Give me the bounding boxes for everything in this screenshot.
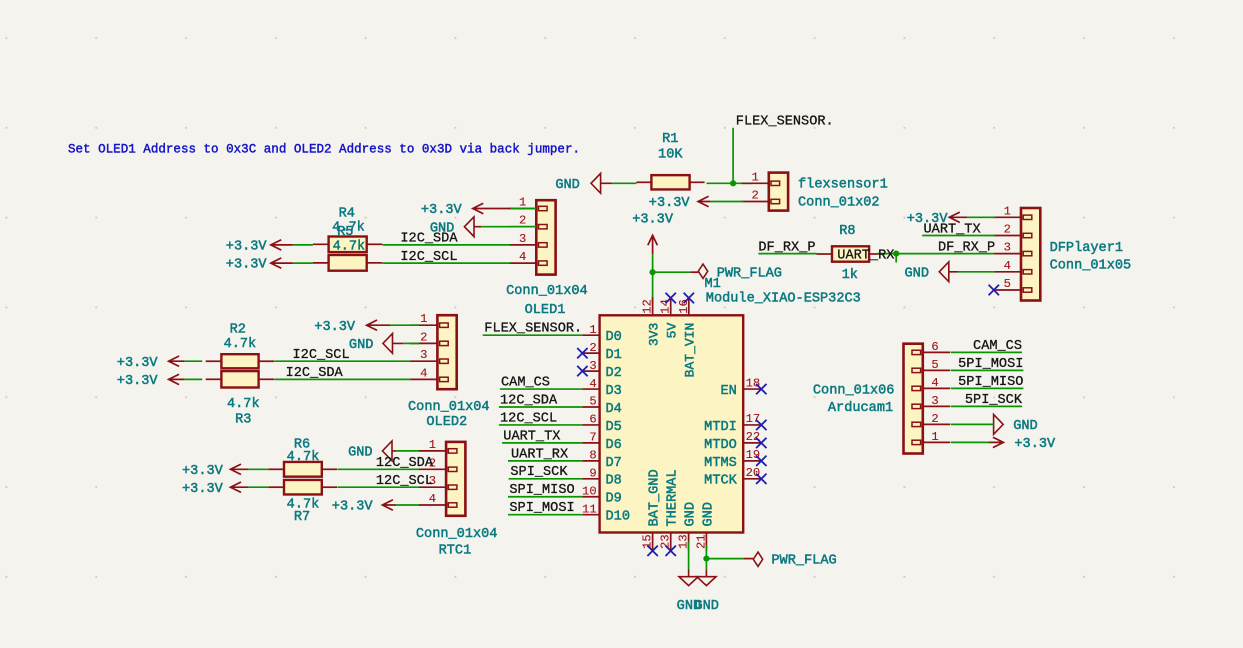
svg-text:R8: R8: [839, 224, 855, 239]
svg-text:Set OLED1 Address to 0x3C and: Set OLED1 Address to 0x3C and OLED2 Addr…: [68, 142, 580, 156]
wire: [275, 360, 411, 362]
svg-text:3: 3: [1004, 241, 1011, 255]
wire: [508, 496, 582, 498]
svg-text:+3.3V: +3.3V: [182, 482, 224, 497]
wire: [877, 253, 994, 255]
svg-text:+3.3V: +3.3V: [314, 320, 356, 335]
svg-text:1: 1: [519, 196, 526, 210]
svg-text:+3.3V: +3.3V: [421, 203, 463, 218]
svg-text:Conn_01x04: Conn_01x04: [506, 284, 588, 299]
wire: [711, 201, 744, 203]
power GND: [993, 415, 1003, 435]
svg-text:2: 2: [1004, 223, 1011, 237]
svg-text:17: 17: [746, 412, 761, 426]
svg-text:PWR_FLAG: PWR_FLAG: [771, 553, 836, 568]
svg-text:10K: 10K: [658, 148, 683, 163]
svg-text:D7: D7: [606, 456, 622, 471]
svg-text:Module_XIAO-ESP32C3: Module_XIAO-ESP32C3: [706, 292, 861, 307]
power +3.3V: [988, 437, 1003, 447]
svg-text:9: 9: [589, 467, 596, 481]
wire: [951, 405, 1022, 407]
no-connect pin 17: [756, 420, 766, 430]
wire: [338, 486, 419, 488]
junction: [650, 269, 656, 275]
junction: [893, 251, 899, 257]
power flag PWR_FLAG: [753, 552, 762, 566]
no-connect pin 14: [666, 293, 676, 303]
wire: [390, 324, 419, 326]
no-connect pin 3: [577, 366, 587, 376]
svg-text:Conn_01x05: Conn_01x05: [1050, 258, 1132, 273]
wire: [511, 208, 537, 210]
wire: [705, 545, 707, 570]
no-connect pin 18: [756, 384, 766, 394]
svg-text:GND: GND: [905, 267, 929, 282]
no-connect pin 19: [756, 456, 766, 466]
svg-text:EN: EN: [720, 384, 736, 399]
svg-text:GND: GND: [684, 502, 699, 526]
pin 4: [582, 388, 599, 390]
resistor R3: [206, 378, 222, 380]
wire: [922, 235, 995, 237]
svg-text:4.7k: 4.7k: [227, 397, 260, 412]
wire: [509, 478, 583, 480]
svg-text:18: 18: [746, 376, 761, 390]
wire: [951, 387, 1024, 389]
connector RTC1: [419, 450, 446, 452]
svg-text:R7: R7: [294, 510, 310, 525]
wire: [184, 360, 202, 362]
svg-text:1: 1: [420, 312, 427, 326]
svg-text:5: 5: [589, 395, 596, 409]
svg-text:+3.3V: +3.3V: [632, 213, 674, 228]
pin 20 MTCK: [743, 478, 761, 480]
pin 11: [582, 514, 599, 516]
svg-text:5V: 5V: [665, 323, 680, 339]
svg-text:Conn_01x04: Conn_01x04: [416, 527, 498, 542]
wire: [758, 253, 816, 255]
wire: [951, 369, 1024, 371]
svg-text:R2: R2: [230, 323, 246, 338]
wire: [951, 423, 994, 425]
wire: [383, 262, 511, 264]
svg-text:D0: D0: [606, 330, 622, 345]
svg-text:12: 12: [641, 299, 655, 314]
wire: [706, 558, 743, 560]
wire: [502, 442, 582, 444]
svg-text:THERMAL: THERMAL: [666, 469, 681, 526]
connector J flexsensor1: [742, 182, 769, 184]
svg-text:10: 10: [582, 484, 597, 498]
svg-text:4: 4: [931, 376, 938, 390]
svg-text:3V3: 3V3: [647, 323, 662, 346]
svg-text:Conn_01x06: Conn_01x06: [813, 383, 895, 398]
module body: [600, 315, 744, 532]
svg-text:D6: D6: [606, 438, 622, 453]
svg-text:20: 20: [746, 466, 761, 480]
svg-text:6: 6: [589, 413, 596, 427]
svg-text:M1: M1: [705, 277, 721, 292]
svg-text:2: 2: [420, 330, 427, 344]
pin 18 EN: [743, 388, 761, 390]
svg-text:3: 3: [519, 232, 526, 246]
pin 3: [582, 370, 599, 372]
wire: [481, 226, 536, 228]
svg-text:D2: D2: [606, 366, 622, 381]
wire: [383, 244, 511, 246]
pin 8: [582, 460, 599, 462]
wire: [396, 504, 419, 506]
svg-text:GND: GND: [348, 446, 372, 461]
svg-text:4: 4: [589, 377, 596, 391]
svg-text:4: 4: [1004, 259, 1011, 273]
svg-text:3: 3: [931, 394, 938, 408]
wire: [403, 342, 419, 344]
pin 6: [582, 424, 599, 426]
ground: [688, 570, 690, 577]
pin 16: [688, 297, 690, 315]
pin 23: [670, 533, 672, 551]
no-connect pin 2: [577, 348, 587, 358]
wire: [248, 486, 268, 488]
wire: [293, 244, 313, 246]
wire: [508, 514, 582, 516]
svg-text:2: 2: [519, 214, 526, 228]
svg-text:UART_RX: UART_RX: [837, 249, 894, 264]
pin 2: [582, 352, 599, 354]
svg-text:1: 1: [1004, 204, 1011, 218]
wire: [338, 468, 419, 470]
svg-text:MTMS: MTMS: [704, 456, 737, 471]
wire: [483, 334, 583, 336]
svg-text:SPI_MOSI: SPI_MOSI: [509, 501, 574, 516]
resistor R7: [268, 486, 284, 488]
pin 19 MTMS: [743, 460, 761, 462]
svg-text:GND: GND: [555, 178, 579, 193]
svg-text:7: 7: [589, 431, 596, 445]
wire: [499, 424, 583, 426]
svg-text:Arducam1: Arducam1: [828, 401, 893, 416]
svg-text:MTDO: MTDO: [704, 438, 737, 453]
svg-text:4.7k: 4.7k: [224, 337, 257, 352]
svg-text:4: 4: [429, 492, 436, 506]
svg-text:11: 11: [582, 502, 597, 516]
svg-text:2: 2: [931, 412, 938, 426]
svg-text:flexsensor1: flexsensor1: [798, 178, 888, 193]
wire: [275, 378, 411, 380]
svg-text:2: 2: [751, 189, 758, 203]
wire: [499, 406, 583, 408]
connector OLED1: [509, 208, 536, 210]
svg-text:GND: GND: [694, 599, 718, 614]
ground: [705, 570, 707, 577]
pin 22 MTDO: [743, 442, 761, 444]
svg-text:DFPlayer1: DFPlayer1: [1050, 241, 1123, 256]
svg-text:D5: D5: [606, 420, 622, 435]
svg-text:+3.3V: +3.3V: [649, 196, 691, 211]
pin 13: [688, 533, 690, 551]
pin 10: [582, 496, 599, 498]
svg-text:GND: GND: [349, 338, 373, 353]
svg-text:+3.3V: +3.3V: [117, 374, 159, 389]
wire: [652, 254, 654, 304]
pin 21: [705, 533, 707, 551]
svg-text:5: 5: [931, 358, 938, 372]
svg-text:8: 8: [589, 449, 596, 463]
wire: [688, 542, 690, 570]
svg-text:D3: D3: [606, 384, 622, 399]
svg-text:4.7k: 4.7k: [333, 240, 366, 255]
svg-text:+3.3V: +3.3V: [182, 464, 224, 479]
svg-text:R3: R3: [235, 413, 251, 428]
pin 1: [582, 334, 599, 336]
wire: [951, 351, 1022, 353]
no-connect pin 23: [666, 546, 676, 556]
svg-text:16: 16: [677, 299, 691, 314]
wire: [732, 128, 734, 184]
no-connect pin 20: [756, 474, 766, 484]
wire: [895, 254, 897, 263]
svg-text:4: 4: [519, 250, 526, 264]
no-connect pin 16: [684, 293, 694, 303]
wire: [967, 216, 995, 218]
junction: [730, 180, 736, 186]
wire: [396, 450, 419, 452]
connector DFPlayer1: [994, 216, 1021, 218]
svg-text:DF_RX_P: DF_RX_P: [938, 241, 995, 256]
svg-text:MTDI: MTDI: [704, 420, 737, 435]
pin 17 MTDI: [743, 424, 761, 426]
svg-text:19: 19: [746, 448, 761, 462]
svg-text:D10: D10: [606, 510, 630, 525]
svg-text:4: 4: [420, 366, 427, 380]
svg-text:14: 14: [659, 299, 673, 314]
svg-text:PWR_FLAG: PWR_FLAG: [717, 266, 782, 281]
svg-text:1: 1: [931, 430, 938, 444]
connector OLED2: [410, 324, 437, 326]
svg-text:R5: R5: [337, 225, 353, 240]
wire: [958, 271, 995, 273]
svg-text:OLED2: OLED2: [426, 415, 467, 430]
svg-text:22: 22: [746, 430, 761, 444]
svg-text:1: 1: [429, 438, 436, 452]
svg-text:D8: D8: [606, 474, 622, 489]
svg-text:+3.3V: +3.3V: [1014, 437, 1056, 452]
svg-text:1: 1: [751, 170, 758, 184]
svg-text:D4: D4: [606, 402, 622, 417]
svg-text:1: 1: [589, 323, 596, 337]
wire: [508, 460, 582, 462]
wire: [184, 378, 202, 380]
wire: [293, 262, 313, 264]
svg-text:3: 3: [420, 348, 427, 362]
svg-text:D1: D1: [606, 348, 622, 363]
wire: [248, 468, 268, 470]
svg-text:RTC1: RTC1: [439, 544, 472, 559]
svg-text:BAT_VIN: BAT_VIN: [683, 323, 698, 378]
svg-text:MTCK: MTCK: [704, 474, 737, 489]
svg-text:1k: 1k: [842, 268, 858, 283]
svg-text:R1: R1: [662, 132, 678, 147]
no-connect pin 22: [756, 438, 766, 448]
svg-text:BAT_GND: BAT_GND: [648, 469, 663, 526]
svg-text:OLED1: OLED1: [525, 303, 566, 318]
wire: [612, 182, 637, 184]
pin 9: [582, 478, 599, 480]
svg-text:D9: D9: [606, 492, 622, 507]
svg-text:GND: GND: [701, 502, 716, 526]
no-connect pin 5: [989, 285, 999, 295]
pin 5: [582, 406, 599, 408]
wire: [653, 271, 691, 273]
svg-text:5: 5: [1004, 277, 1011, 291]
svg-text:+3.3V: +3.3V: [226, 258, 268, 273]
no-connect pin 15: [647, 546, 657, 556]
pin 15: [652, 533, 654, 551]
svg-text:Conn_01x02: Conn_01x02: [798, 196, 880, 211]
svg-text:2: 2: [589, 341, 596, 355]
svg-text:+3.3V: +3.3V: [226, 239, 268, 254]
svg-text:+3.3V: +3.3V: [332, 500, 374, 515]
svg-text:3: 3: [589, 359, 596, 373]
connector Arducam1: [923, 351, 950, 353]
svg-text:6: 6: [931, 340, 938, 354]
power flag PWR_FLAG: [698, 264, 707, 278]
pin 7: [582, 442, 599, 444]
svg-text:Conn_01x04: Conn_01x04: [408, 400, 490, 415]
svg-text:GND: GND: [1013, 419, 1037, 434]
wire: [951, 441, 989, 443]
wire: [500, 388, 583, 390]
wire: [707, 182, 753, 184]
pin 12: [652, 297, 654, 315]
svg-text:FLEX_SENSOR.: FLEX_SENSOR.: [736, 114, 834, 129]
junction: [703, 556, 709, 562]
svg-text:R4: R4: [339, 206, 355, 221]
svg-text:+3.3V: +3.3V: [117, 356, 159, 371]
pin 14: [670, 297, 672, 315]
